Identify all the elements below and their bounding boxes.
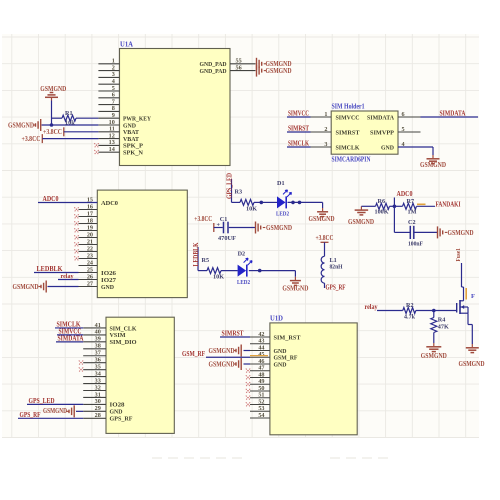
svg-text:1: 1 [324,111,327,118]
ground GSMGND (D1) [322,202,324,208]
svg-text:22: 22 [87,245,93,252]
svg-text:GSMGND: GSMGND [209,360,235,368]
net label relay [58,279,79,281]
junction [432,309,436,313]
wire [415,231,438,233]
svg-text:GSMGND: GSMGND [448,229,474,237]
net label LEDBLK (vertical) [197,247,199,271]
svg-text:SIM_DIO: SIM_DIO [110,339,137,346]
net label GPS_RF (pin 28) [18,417,83,419]
svg-text:SIMVPP: SIMVPP [370,129,394,136]
IC U1D [270,323,357,435]
svg-text:SIMDATA: SIMDATA [440,109,466,117]
svg-text:GSMGND: GSMGND [421,352,447,360]
svg-text:23: 23 [87,252,93,259]
svg-text:GND: GND [101,284,114,291]
svg-text:LEDBLK: LEDBLK [192,242,200,266]
svg-text:39: 39 [95,336,101,343]
LED D2 [238,265,247,277]
IC U1B (ADC0 section) [97,190,187,298]
svg-text:LED2: LED2 [276,211,289,218]
svg-text:54: 54 [258,412,264,419]
LED D1 [261,201,277,203]
ground GSMGND (C2) [437,226,439,238]
wire SIMDATA [421,116,479,118]
svg-text:SIMRST: SIMRST [288,124,309,132]
svg-text:GSM_RF: GSM_RF [182,350,205,358]
IC U1A [120,49,231,166]
net label ADC0 (left) [38,202,97,204]
IC U1C (GPS section) [106,317,174,433]
wire to C2 [393,206,395,232]
ground GSMGND (U1D pin 46) [244,363,251,365]
connector SIM Holder1 [331,111,398,154]
svg-text:GSMGND: GSMGND [459,360,485,368]
svg-text:SPK_N: SPK_N [123,150,143,157]
svg-text:100K: 100K [375,208,389,215]
svg-text:R3: R3 [235,188,243,195]
svg-text:SIMCLK: SIMCLK [288,139,309,147]
svg-text:LED2: LED2 [237,279,250,286]
ground GSMGND (R4) [433,343,435,346]
svg-text:ADC0: ADC0 [43,195,59,203]
svg-text:GND_PAD: GND_PAD [200,68,227,75]
svg-text:SIMVCC: SIMVCC [336,114,360,121]
svg-text:34: 34 [95,370,101,377]
svg-text:29: 29 [95,405,101,412]
svg-text:19: 19 [87,224,93,231]
GPS section pins 28-41 [83,417,106,419]
svg-text:U1A: U1A [120,40,134,49]
svg-text:47K: 47K [438,323,449,330]
wire GND to pin 10 [42,124,99,126]
svg-text:17: 17 [87,210,93,217]
svg-text:SIMDATA: SIMDATA [58,334,84,342]
svg-text:38: 38 [95,343,101,350]
svg-text:SIMVCC: SIMVCC [288,109,309,117]
svg-text:20: 20 [87,231,93,238]
SIM Holder pins 4-6 [398,116,421,118]
net label SIMCLK [287,146,311,148]
resistor R7 [394,205,402,207]
svg-text:D2: D2 [238,250,246,257]
svg-text:GPS_LED: GPS_LED [225,173,233,199]
svg-text:25: 25 [87,266,93,273]
wire to gate [434,310,457,312]
svg-text:18: 18 [87,217,93,224]
net label SIMVCC [287,116,311,118]
svg-text:F: F [471,293,475,300]
wire [324,242,326,256]
svg-text:SIM_CLK: SIM_CLK [110,325,137,332]
resistor R5 [198,270,207,272]
junction [260,201,264,205]
svg-text:10K: 10K [213,273,224,280]
svg-text:D1: D1 [277,180,285,187]
ground GSMGND at pin 55 [256,58,258,70]
svg-text:IO26: IO26 [101,270,117,277]
SIM Holder pins 1-3 [311,116,332,118]
svg-text:R2: R2 [406,302,414,309]
svg-text:R6: R6 [378,198,386,205]
svg-text:31: 31 [95,391,101,398]
ground GSMGND (MOSFET) [471,344,473,347]
wire [260,270,296,272]
svg-text:5: 5 [402,126,405,133]
ground GSMGND at pin 56 [256,65,258,77]
svg-text:28: 28 [95,412,101,419]
svg-text:R5: R5 [202,257,210,264]
svg-text:37: 37 [95,350,101,357]
schematic sheet background [2,34,479,438]
wire [42,138,98,140]
svg-text:33: 33 [95,377,101,384]
svg-text:GND: GND [381,144,394,151]
svg-text:4.7k: 4.7k [404,313,416,320]
svg-text:GSMGND: GSMGND [348,218,374,226]
svg-text:27: 27 [87,280,93,287]
resistor R3 [232,201,241,203]
svg-text:GSMGND: GSMGND [266,224,292,232]
wire [288,201,323,203]
ground GSMGND (C1) [255,222,257,234]
svg-text:56: 56 [236,64,242,71]
svg-text:SIMCLK: SIMCLK [336,144,360,151]
resistor R2 [403,308,416,314]
inductor L1 [321,256,324,283]
no-connect marks pins 16-23 [74,207,78,211]
no-connect marks pins 47-52 [246,369,250,373]
svg-text:IO28: IO28 [110,402,126,409]
svg-text:GSMGND: GSMGND [8,121,34,129]
svg-text:36: 36 [95,357,101,364]
no-connect marks pins 13-14 [94,143,98,147]
svg-text:1M: 1M [408,208,417,215]
svg-text:GSMGND: GSMGND [13,283,39,291]
svg-text:SIMCARD6PIN: SIMCARD6PIN [332,157,371,164]
svg-text:10k: 10k [65,120,75,127]
svg-text:GSMGND: GSMGND [282,285,308,293]
svg-text:GSMGND: GSMGND [266,67,292,75]
capacitor C1 [214,227,223,229]
svg-text:LEDBLK: LEDBLK [37,265,63,273]
svg-text:21: 21 [87,238,93,245]
svg-text:32: 32 [95,384,101,391]
no-connect marks pins 35-36 [79,367,83,371]
net label ADC0 (right) [393,198,395,207]
net label GPS_LED (vertical) [231,179,233,202]
U1A pins 1-14 [98,63,119,65]
net label SIMCLK [55,327,83,329]
net label SIMRST [287,131,311,133]
svg-text:26: 26 [87,273,93,280]
resistor R1 [52,117,63,119]
svg-text:GSMGND: GSMGND [209,347,235,355]
svg-text:GPS_RF: GPS_RF [326,284,346,292]
net label GPS_RF (L1) [324,283,326,288]
svg-text:VSIM: VSIM [110,332,126,339]
svg-text:2: 2 [324,126,327,133]
svg-text:GSMGND: GSMGND [43,407,67,415]
junction [249,270,260,272]
wire [64,131,99,133]
svg-text:Fuse1: Fuse1 [455,248,462,262]
svg-text:GND: GND [110,409,123,416]
svg-text:+3.8CC: +3.8CC [43,128,62,136]
net label SIMRST [220,336,250,338]
svg-text:470UF: 470UF [218,235,236,242]
wire pin4 to ground [398,146,433,148]
svg-text:35: 35 [95,363,101,370]
svg-text:6: 6 [402,111,405,118]
svg-text:10K: 10K [246,205,257,212]
ground GSMGND (pin 29) [76,410,83,412]
svg-text:GPS_RF: GPS_RF [110,416,133,423]
svg-text:14: 14 [109,146,115,153]
resistor R4 [433,311,435,318]
ground GSMGND (U1D pin 44) [244,350,251,352]
svg-text:C1: C1 [220,216,228,223]
svg-text:GPS_RF: GPS_RF [20,411,41,419]
junction [50,123,54,127]
svg-text:16: 16 [87,203,93,210]
junction [393,205,397,209]
svg-text:30: 30 [95,398,101,405]
capacitor C2 [409,226,411,239]
svg-text:82nH: 82nH [330,263,343,270]
svg-text:3: 3 [324,141,327,148]
net label LEDBLK [34,272,79,274]
svg-text:SIMRST: SIMRST [222,330,244,338]
orange marker (pin 45) [250,355,268,357]
svg-text:+3.8CC: +3.8CC [22,135,41,143]
wire [229,227,255,229]
orange marker (R7) [417,203,426,205]
svg-text:40: 40 [95,329,101,336]
net label relay [377,310,403,312]
svg-text:41: 41 [95,322,101,329]
svg-text:GSMGND: GSMGND [420,161,446,169]
svg-text:IO27: IO27 [101,277,117,284]
ground GSMGND (D2) [294,271,296,277]
wire [51,101,53,126]
svg-text:R7: R7 [407,198,415,205]
net label SIMDATA [56,341,83,343]
svg-text:R1: R1 [65,110,73,117]
svg-text:+3.8CC: +3.8CC [194,215,212,223]
svg-text:SIM Holder1: SIM Holder1 [332,104,366,111]
net label SIMVCC [57,334,83,336]
resistor R6 [361,205,375,207]
ground GSMGND (SIM holder) [432,155,434,158]
svg-text:FANDAKI: FANDAKI [436,200,461,208]
svg-text:SIMRST: SIMRST [336,129,361,136]
svg-text:C2: C2 [408,219,416,226]
svg-text:GND: GND [274,361,287,368]
net label GSM_RF [206,356,250,358]
svg-text:relay: relay [61,273,75,280]
svg-text:SIMDATA: SIMDATA [367,114,394,121]
svg-text:GPS_LED: GPS_LED [29,397,55,405]
svg-text:U1D: U1D [270,313,284,322]
ground GSMGND (ADC pin 27) [48,286,79,288]
U1D pins 42-54 [250,336,270,338]
net label GPS_LED [27,403,83,405]
svg-text:+3.8CC: +3.8CC [316,234,334,242]
wire source to ground [467,313,469,324]
ADC section pins 15-27 [79,202,98,204]
svg-text:relay: relay [365,303,378,311]
svg-text:24: 24 [87,259,93,266]
svg-text:GSMGND: GSMGND [309,215,335,223]
svg-text:100nF: 100nF [408,240,423,247]
svg-text:SIM_RST: SIM_RST [274,334,302,341]
svg-text:ADC0: ADC0 [101,200,118,207]
